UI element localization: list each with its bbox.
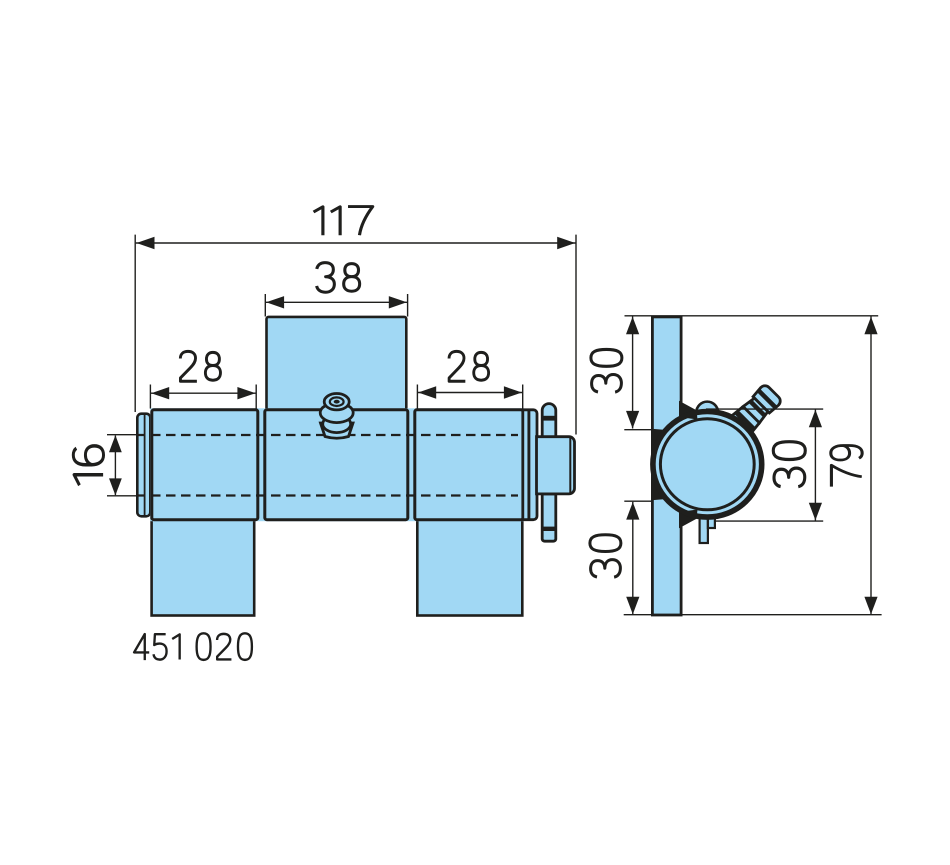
axle stub (right end) — [537, 437, 575, 494]
centre bore dashed line lower — [136, 494, 518, 496]
dim 16: dimension line vertical — [109, 435, 122, 495]
dim 117: dimension line — [136, 237, 576, 249]
label 38 — [317, 263, 360, 293]
label 451 020 — [134, 633, 252, 660]
dim 38: right extension line — [407, 294, 409, 317]
extension line right 30 top — [706, 408, 823, 410]
weld fillet lower-right — [679, 510, 698, 529]
dim 38: dimension line — [265, 296, 407, 308]
bottom mounting plate left — [152, 519, 255, 616]
label 30 top-left — [591, 349, 622, 392]
short extension line upper-left 30 — [624, 429, 652, 431]
label 28 left — [180, 351, 220, 381]
cylinder left section (28) — [152, 410, 258, 520]
dim 28 left: extension lines — [149, 385, 151, 409]
linch pin (vertical) upper part — [541, 404, 557, 440]
cylinder right section (28) — [415, 410, 523, 520]
extension line right 30 bottom — [716, 520, 823, 522]
label 28 right — [449, 351, 489, 381]
bottom mounting plate right — [417, 519, 522, 616]
tube cross-section: inner ring — [660, 419, 754, 510]
top mounting plate (38 wide) — [267, 317, 407, 413]
weld fillet lower-left — [652, 483, 664, 500]
extension line bottom (plate bottom) — [624, 614, 882, 616]
dim 30 bottom-left — [626, 502, 639, 615]
weld fillet upper-left — [652, 429, 664, 446]
label 117 — [314, 207, 373, 236]
label 30 bottom-left — [590, 535, 621, 577]
dim 28 right: dimension line — [417, 386, 522, 398]
tube cross-section: outer ring — [653, 412, 762, 518]
label 30 right — [773, 442, 805, 487]
bottom pin end (side view) — [700, 512, 715, 543]
right end cap — [523, 410, 537, 520]
centre bore dashed line upper — [136, 434, 518, 436]
grease nipple (front view) — [320, 394, 353, 439]
tube cross-section: blue disc — [650, 409, 764, 520]
label 16 rotated — [73, 446, 103, 485]
dim 38: left extension line — [264, 294, 266, 317]
grease nipple (45 degrees, side view) — [728, 383, 783, 438]
dim 117: left extension line — [134, 235, 136, 412]
weld fillet upper-right — [679, 401, 698, 420]
cylinder body base fill — [150, 408, 524, 521]
linch pin (vertical) lower part — [541, 494, 557, 541]
dim 30 right — [809, 410, 822, 521]
dim 117: right extension line — [575, 235, 577, 435]
dim 79 — [864, 317, 877, 615]
dim 28 left: dimension line — [150, 387, 256, 399]
cylinder centre section (38) — [265, 410, 408, 520]
dim 28 right: extension lines — [416, 385, 418, 409]
mounting plate (edge view) — [652, 317, 681, 615]
extension line top (plate top, for 30 and 79) — [625, 315, 879, 317]
left end cap — [137, 414, 150, 517]
short extension line lower-left 30 — [624, 500, 652, 502]
grease nipple boss bump (top of tube) — [696, 402, 718, 413]
dim 30 top-left — [626, 317, 639, 429]
label 79 — [831, 446, 862, 487]
dim 16: extension lines — [107, 434, 136, 436]
